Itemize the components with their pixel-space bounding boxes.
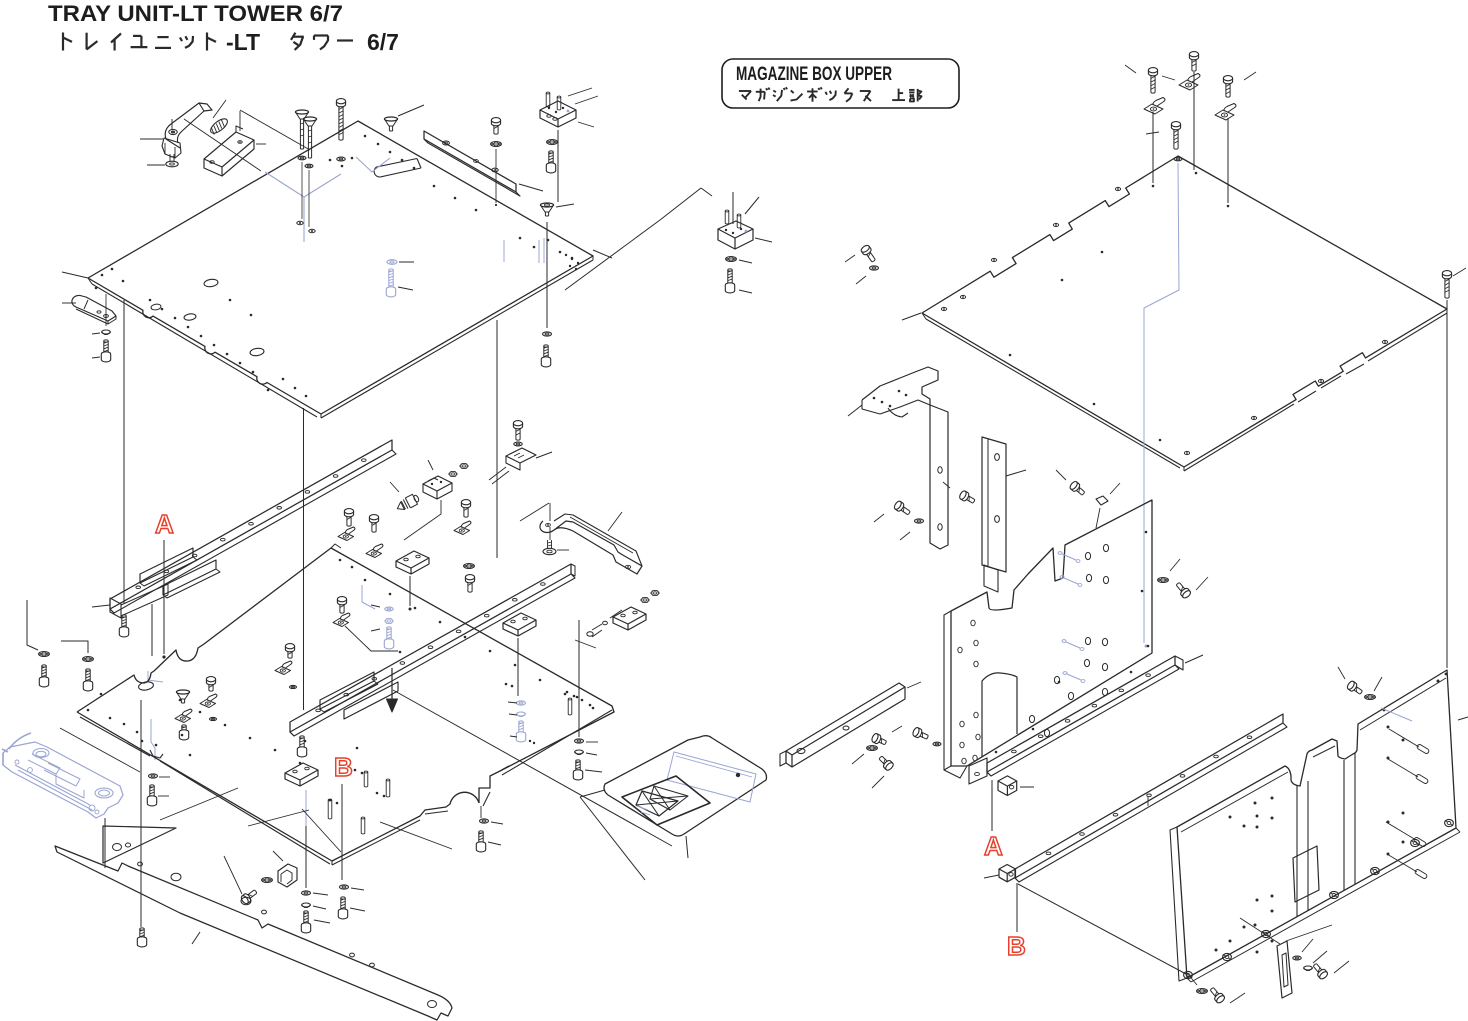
- pin on plate 5: [568, 698, 572, 700]
- mounting pad bottom center: [285, 763, 318, 780]
- foot cube (A part): [998, 776, 1017, 786]
- right panel rectangular hole: [1293, 846, 1319, 902]
- handle hex boss: [162, 138, 181, 158]
- plate1 blue alignment guide V right: [356, 157, 390, 172]
- bottom plate top corner jog: [331, 544, 341, 548]
- support bar block top-left: [204, 132, 254, 167]
- star washer under corner block: [726, 257, 737, 262]
- panel edge dots: [1145, 531, 1148, 534]
- screw A4 small above corner: [1171, 122, 1180, 150]
- star washer under bar: [867, 746, 878, 751]
- line A1 to plate: [1152, 112, 1154, 183]
- cable clamp x290: [275, 661, 292, 675]
- blue leader on right panel: [1381, 708, 1412, 721]
- bolt center x306: [301, 911, 310, 933]
- panel small holes left: [958, 647, 962, 653]
- screw a (top middle): [295, 110, 308, 149]
- rail hole 3 with screw ring: [492, 168, 498, 172]
- leader to link bar: [62, 302, 76, 304]
- right top plate: magazine box top cover: [922, 156, 1447, 467]
- linear rail A (upper): [110, 440, 392, 609]
- caution sticker outer: [604, 736, 767, 836]
- post oval holes: [995, 454, 1000, 461]
- cable clamp 3: [454, 521, 471, 535]
- screw bottom-left of panel: [1208, 986, 1226, 1005]
- divider strip part: [1277, 941, 1292, 998]
- pin on plate 1: [364, 771, 368, 773]
- long drop line right corner: [1446, 300, 1448, 668]
- right panel fold lines: [1296, 786, 1298, 917]
- plate1 slot cutout near top edge: [374, 159, 421, 178]
- cable clamp 1: [338, 527, 355, 541]
- svg-text:A: A: [984, 831, 1003, 861]
- blue bolt right of rail B: [384, 627, 393, 649]
- blue guide L mark: [148, 671, 163, 682]
- spring leader: [213, 100, 226, 118]
- plate2 thickness lower-left: [926, 319, 1180, 468]
- plate1 surface hole dots: [364, 135, 367, 138]
- drop line to label A right: [991, 780, 993, 831]
- caution pictogram crossed boxes: [636, 791, 678, 816]
- blue carriage big oval 2: [95, 788, 113, 798]
- screw right corner P2: [1442, 271, 1451, 299]
- handle eyelet hole: [169, 129, 177, 134]
- blue guide zigzag lower: [151, 719, 155, 760]
- L-bracket hook tab: [888, 408, 908, 417]
- plate2 blue drop guide: [1144, 163, 1179, 643]
- drop line below label B: [341, 784, 343, 880]
- label box: MAGAZINE BOX UPPER: [722, 59, 959, 108]
- sensor nozzle fitting: [395, 493, 421, 514]
- rail B slider block 2: [344, 682, 398, 719]
- oval hole on bottom plate: [138, 681, 154, 691]
- svg-text:6/7: 6/7: [367, 29, 399, 55]
- screw into post: [958, 490, 976, 506]
- right panel pin fasteners: [1389, 729, 1419, 747]
- sheet triangle holes: [113, 844, 122, 851]
- title line 2: katakana: [62, 33, 64, 51]
- bolt under link bar: [101, 340, 110, 362]
- drop line to label B right: [1016, 883, 1018, 932]
- leader to post: [1006, 470, 1026, 476]
- cable clamp x342: [333, 613, 350, 627]
- drop line screw e: [495, 149, 497, 203]
- clamp screw x211: [206, 677, 215, 692]
- svg-text:B: B: [1007, 931, 1026, 961]
- right panel top corner dots: [1445, 673, 1448, 676]
- floating screw left of right plate: [860, 244, 878, 264]
- rail on plate1 top-right: [424, 131, 516, 192]
- bolt j: [541, 345, 550, 367]
- bent corner strap bracket: [540, 521, 642, 574]
- long cross leader line 1: [240, 110, 310, 150]
- washer under screw a: [298, 156, 306, 160]
- leader at plate2 left corner: [902, 313, 921, 320]
- strap leader upper: [608, 512, 622, 531]
- screw c: [336, 99, 345, 141]
- rail hole 2: [474, 160, 479, 163]
- block B1 leader right: [578, 122, 594, 127]
- washer under screw b: [305, 164, 313, 168]
- pin f above block B1: [546, 92, 550, 94]
- terminal block small: [423, 476, 452, 491]
- blue washer set under rail B: [517, 701, 526, 705]
- long drop line x124: [123, 300, 125, 604]
- leaders near blue set 2: [371, 605, 380, 607]
- plate1 oval hole near left ear: [151, 303, 162, 310]
- bar end cap: [780, 751, 786, 766]
- vertical line through blue carriage: [104, 818, 106, 868]
- rail 1 right assembly: [987, 656, 1175, 772]
- washer stack center x306: [302, 891, 311, 895]
- cable clamp 2: [366, 544, 383, 558]
- bar block holes: [210, 161, 214, 164]
- rail leader line: [519, 184, 543, 191]
- plate1 oval hole 2: [184, 313, 197, 321]
- plate1 thickness lower-right edge: [321, 260, 593, 418]
- bottom plate half-circle cutout arc: [450, 792, 479, 804]
- bottom plate thickness line lower-left: [80, 717, 150, 756]
- screw head and dots at plate1 right corner: [565, 254, 567, 256]
- bent leader left 2: [61, 641, 88, 653]
- mounting pad plate mid: [396, 551, 429, 568]
- connector cable lines: [489, 467, 506, 480]
- right panel top edge thickness: [1181, 772, 1288, 832]
- L-bracket with flange (top-left of magazine box): [862, 367, 948, 549]
- hex nut pair right: [641, 598, 649, 603]
- rail2 left end cube: [999, 865, 1016, 874]
- clip block bottom center: [278, 864, 297, 887]
- rail1 left flange: [969, 758, 987, 784]
- screw mid below washer: [465, 575, 474, 593]
- star washer bottom center: [262, 878, 273, 883]
- cable clamp x183: [175, 709, 192, 723]
- sheet holes: [171, 873, 181, 881]
- corner block leader right: [755, 238, 772, 242]
- star washer mid: [464, 564, 475, 569]
- main vertical panel of magazine box: [951, 500, 1152, 766]
- blue carriage assembly (printhead): [3, 742, 123, 818]
- blue washer pair right of rail B: [385, 607, 394, 611]
- divider strip leaders: [1240, 918, 1280, 944]
- sticker blue mini text: [637, 806, 648, 810]
- star washer under screw e: [491, 142, 502, 147]
- clamp screw 3: [461, 500, 470, 517]
- screw A1 top: [1148, 68, 1157, 94]
- drop line from block B1: [557, 130, 559, 202]
- sheet leader tick: [192, 932, 200, 944]
- leader from foot cube: [1020, 786, 1034, 788]
- drop line pad to blue bolt: [517, 638, 519, 696]
- connector with cable: [513, 421, 522, 441]
- drop line from pad: [409, 576, 411, 606]
- bolt under plate S-jog: [147, 785, 156, 806]
- handle leader lines: [140, 138, 163, 140]
- screw left of panel: [893, 500, 912, 517]
- leaders for blue set: [508, 702, 517, 703]
- hole rings on block B1: [547, 115, 551, 118]
- drop line through link bar: [105, 294, 107, 326]
- drop line x152: [151, 604, 153, 656]
- corner block leader lines: [660, 188, 701, 220]
- bolt at x141: [137, 928, 146, 947]
- right bottom panel with stepped profile: [1177, 670, 1456, 978]
- rail B slider block 1: [320, 672, 374, 709]
- pin on plate 4: [361, 817, 365, 819]
- handle lever arm top-left: [199, 103, 212, 111]
- hex nut 2: [460, 464, 468, 469]
- rail A slider block 1: [140, 548, 193, 583]
- pin g above block B1: [557, 96, 561, 98]
- rail hole 1: [443, 141, 450, 145]
- svg-text:A: A: [155, 509, 174, 539]
- bolt under corner block: [725, 269, 734, 293]
- rail A slider block 2: [163, 560, 216, 595]
- washer bolt under cutout: [480, 819, 489, 823]
- drop line x141: [140, 700, 142, 927]
- drop line x306 from pad: [305, 790, 307, 826]
- long drop line x497: [496, 320, 498, 558]
- clip A2: [1179, 74, 1200, 91]
- left link bar with rounded end: [72, 295, 116, 321]
- caution pictogram black square: [622, 776, 710, 825]
- rail1 end cap right: [1175, 656, 1183, 670]
- star washer under block B1: [547, 140, 558, 145]
- leader for screw d: [398, 105, 424, 116]
- star washer bottom-left of panel: [1197, 989, 1208, 994]
- flat-head screw h below block: [540, 203, 553, 216]
- star washer far-left: [39, 652, 50, 657]
- washer under plate S-jog: [149, 774, 158, 778]
- bolt left 2: [83, 669, 92, 691]
- sheet corner triangle: [103, 826, 176, 863]
- plate2 interior dots: [1009, 354, 1012, 357]
- guide block B1 top-right: [540, 101, 576, 119]
- leader D1 long diagonal to sticker: [393, 690, 672, 846]
- plate2 thickness lower-right: [1184, 404, 1294, 471]
- plate1 oval hole 3: [250, 347, 265, 356]
- terminal block wire leader: [404, 500, 441, 540]
- clamp screw on plate x342: [337, 597, 346, 614]
- clip block leaders: [273, 851, 283, 861]
- bar block drop line: [239, 111, 241, 131]
- washer i: [543, 332, 552, 336]
- washer x344: [340, 885, 349, 889]
- plate1 blue alignment guide V left: [265, 172, 341, 197]
- washer for floating screw: [870, 266, 879, 270]
- bolt far-left: [39, 665, 48, 687]
- panel side face left: [944, 611, 951, 770]
- screw e right side: [491, 118, 500, 135]
- clamp screw x290: [285, 644, 294, 659]
- blue guide drop lines mid-plate: [503, 240, 505, 262]
- clamp screw 2: [369, 515, 378, 533]
- blue bolt under rail B: [516, 721, 525, 742]
- blue carriage end cap: [2, 753, 4, 765]
- pin on plate 3: [328, 799, 332, 801]
- coil spring: [208, 116, 229, 136]
- plate1 thickness lower-left edge: [92, 284, 317, 417]
- blue bolt on plate1: [386, 269, 395, 297]
- pin on plate 2: [386, 779, 390, 781]
- blue carriage big oval 1: [33, 749, 49, 758]
- square nut for panel screw: [1096, 496, 1108, 505]
- screw near divider: [1311, 962, 1329, 981]
- screw into panel top: [1069, 480, 1087, 497]
- strap foot hole: [625, 565, 630, 568]
- leader line right edge: [1458, 717, 1468, 720]
- screw lower-left 2: [871, 733, 888, 747]
- screw b (top middle): [303, 117, 316, 158]
- strap eyelet hole: [546, 523, 551, 526]
- right panel corner screws: [1184, 971, 1193, 978]
- bar holes: [797, 748, 805, 753]
- plate2 edge holes: [941, 307, 946, 310]
- rail2 mid joint line: [1147, 797, 1149, 806]
- bar block leader: [256, 143, 266, 145]
- drop line below label A: [163, 540, 165, 654]
- right panel left side face: [1170, 827, 1187, 981]
- screw right of panel: [1174, 581, 1192, 600]
- panel big oval holes: [1085, 552, 1090, 559]
- screw A3 top: [1223, 76, 1232, 98]
- washer bolt right x579: [578, 620, 580, 737]
- bent leader from clamp: [345, 626, 398, 651]
- strap drop line: [549, 527, 551, 540]
- bottom plate lower-left edge tab: [150, 750, 163, 758]
- blue carriage inner mechanism: [15, 765, 90, 805]
- corner block pins: [725, 210, 729, 212]
- washer left of panel: [915, 519, 924, 523]
- leader lines for blue bolt: [399, 261, 414, 263]
- leader from rail1 right end: [1185, 655, 1203, 663]
- clamp screw 1: [344, 509, 353, 526]
- blue guide V right: [362, 585, 375, 609]
- small bolt x184: [179, 725, 188, 740]
- leader to rail2 left end: [984, 875, 999, 878]
- plate1 oval hole 1: [204, 278, 219, 287]
- bar right end leader: [907, 682, 921, 688]
- sensor fitting 2: [587, 632, 593, 636]
- panel blue pins: [1058, 552, 1062, 555]
- hex nut 1: [449, 472, 457, 477]
- right panel bottom edge thickness: [1191, 832, 1460, 982]
- drop line to washer: [546, 222, 548, 328]
- bottom plate surface dots: [87, 709, 90, 712]
- label box katakana: magazine box upper: [739, 90, 751, 92]
- flat washer under link bar: [102, 330, 111, 334]
- L-bracket post holes: [938, 467, 942, 473]
- line A3 to plate: [1227, 118, 1229, 203]
- sticker leader lines: [580, 790, 605, 797]
- vertical post (strut): [982, 437, 1006, 572]
- strap leader diagonal: [520, 503, 549, 521]
- bolt x344: [338, 897, 347, 919]
- washer near divider: [1293, 956, 1302, 960]
- star washer left 2: [83, 657, 94, 662]
- leader to pad: [575, 640, 596, 648]
- clip A1: [1144, 98, 1165, 115]
- leader diagonals bottom-left: [248, 810, 309, 826]
- bottom tray plate: [77, 548, 614, 861]
- star washer top of right panel: [1365, 695, 1376, 700]
- screw under bar: [877, 754, 894, 771]
- flat screw below handle: [169, 154, 171, 161]
- bolt under rail A left end: [119, 615, 128, 637]
- right panel dot clusters: [1254, 924, 1257, 927]
- washer right of panel: [1158, 578, 1169, 583]
- corner bracket block: [718, 221, 753, 238]
- washer under screw c: [337, 157, 346, 161]
- horizontal bar (stay): [786, 683, 905, 755]
- thin bottom sheet strip: [55, 846, 452, 1020]
- plate1 blue guide drop line: [303, 197, 305, 242]
- bent leader far-left: [27, 600, 38, 650]
- down arrow marker: [391, 668, 393, 699]
- flat screw below strap eyelet: [547, 540, 549, 549]
- clip A3: [1215, 104, 1236, 121]
- rail 2 right assembly: [1015, 714, 1283, 878]
- flat washer near divider: [1304, 966, 1313, 970]
- L-bracket flange holes: [873, 397, 876, 400]
- leader to L-bracket: [848, 405, 862, 416]
- rail A lower slide bar: [121, 584, 168, 605]
- svg-text:TRAY UNIT-LT TOWER 6/7: TRAY UNIT-LT TOWER 6/7: [48, 1, 343, 26]
- sticker small mark: [736, 773, 740, 777]
- linear rail B (lower): [290, 564, 571, 732]
- bar block notch: [236, 126, 243, 132]
- panel arch cutout: [982, 673, 1017, 757]
- post lower section: [984, 565, 998, 592]
- long cross leader line 2: [184, 119, 261, 171]
- leader lines into block B1: [568, 88, 592, 96]
- handle drop line: [171, 119, 173, 130]
- caution sticker inner blue frame: [667, 752, 756, 802]
- bolt above pad: [297, 736, 306, 757]
- flat-head screw d: [384, 117, 397, 131]
- cable clamp x211: [200, 694, 217, 708]
- bolt under block B1: [546, 151, 555, 173]
- washer marks on plate for screws a b: [297, 221, 303, 224]
- mounting pad on rail B right: [613, 607, 646, 624]
- screws lower-left of panel: [912, 727, 930, 742]
- blue washer on plate1: [387, 260, 397, 265]
- screw A2 top: [1189, 52, 1198, 72]
- flat screw x183: [176, 690, 189, 703]
- top-left plate: tray unit top cover: [88, 121, 593, 414]
- screw top of right panel: [1346, 680, 1364, 696]
- blue carriage wire lever: [9, 733, 31, 749]
- line A2 to plate: [1193, 72, 1195, 170]
- angled screw bottom center: [240, 888, 259, 905]
- leader at plate1 left corner: [62, 272, 88, 278]
- rail B right end cap: [571, 564, 575, 576]
- svg-text:MAGAZINE BOX UPPER: MAGAZINE BOX UPPER: [736, 64, 892, 85]
- washer at plate2 top corner: [1174, 157, 1182, 161]
- leader diagonal from rail2 to panel corner: [1018, 884, 1186, 974]
- long drop line x303: [303, 408, 305, 710]
- svg-text:B: B: [334, 752, 353, 782]
- bottom plate thickness line lower-right: [332, 820, 420, 865]
- mounting pad on rail B left: [503, 613, 536, 630]
- svg-text:-LT: -LT: [226, 29, 260, 55]
- leader to rail A left end: [92, 605, 110, 607]
